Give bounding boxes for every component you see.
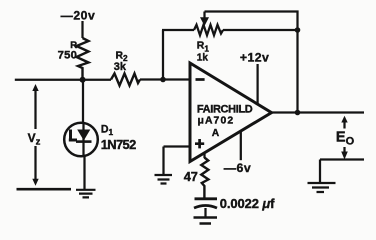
wire output ground reference horizontal (320, 158, 364, 160)
ground under zener (76, 190, 96, 198)
Vz measure arrow lower (34, 146, 36, 180)
node junction at R-750 / zener (80, 77, 86, 83)
node junction R1 right (295, 27, 301, 33)
wire output ground reference vertical (319, 160, 321, 184)
resistor 47 zigzag (201, 158, 208, 198)
wire +12v supply lead (256, 64, 258, 104)
svg-text:3k: 3k (114, 61, 127, 73)
svg-text:R1: R1 (197, 41, 210, 54)
wire bottom reference line (17, 188, 72, 191)
op-amp uA702 triangle (190, 63, 272, 162)
capacitor top plate (195, 197, 218, 200)
pot wiper arrow (203, 12, 205, 20)
wire main input rail left segment (15, 79, 111, 81)
svg-text:—6v: —6v (224, 161, 251, 175)
wire capacitor to ground (204, 208, 206, 217)
Eo measure arrow lower (343, 147, 345, 153)
ground at output reference (308, 183, 336, 192)
svg-text:μA702: μA702 (198, 116, 235, 127)
wire through zener (82, 123, 84, 156)
wire R1 left lead (162, 29, 194, 31)
wire -20v supply lead (81, 21, 83, 38)
node junction at R1 tap (160, 77, 166, 83)
svg-text:47: 47 (184, 169, 198, 184)
ground at non-inverting input (155, 175, 173, 184)
node output junction (295, 110, 301, 116)
wire output (272, 111, 365, 113)
svg-text:1N752: 1N752 (101, 137, 136, 152)
wire non-inverting ground link horizontal (164, 145, 190, 147)
wire -6v supply lead (240, 131, 242, 160)
capacitor bottom plate (194, 206, 217, 209)
resistor R (750 ohm) zigzag (77, 38, 89, 80)
wire zener branch vertical (82, 80, 84, 124)
zener diode D1 circle (64, 123, 98, 157)
svg-text:—20v: —20v (61, 9, 96, 23)
svg-text:FAIRCHILD: FAIRCHILD (197, 104, 253, 116)
wire R1 tap vertical riser (162, 30, 164, 80)
wire non-inverting ground link vertical (162, 147, 164, 176)
Vz measure arrow upper (34, 90, 36, 129)
resistor R2 (3k) zigzag (111, 74, 140, 86)
wire R1 right lead (223, 29, 298, 31)
zener cathode bar (76, 140, 92, 143)
Eo measure arrow upper (341, 116, 347, 123)
zener diode triangle (77, 130, 90, 141)
svg-text:A: A (212, 128, 220, 139)
svg-text:750: 750 (58, 50, 78, 62)
op-amp plus sign (195, 139, 204, 148)
svg-text:+12v: +12v (240, 51, 269, 65)
op-amp minus sign (196, 78, 205, 81)
wire pot wiper top (205, 12, 298, 31)
zener cathode L mark (69, 130, 77, 141)
wire main input rail right segment (140, 78, 190, 80)
ground under capacitor (194, 218, 218, 224)
wire zener to ground (83, 156, 85, 190)
resistor R1 (1k) zigzag (194, 25, 223, 35)
svg-text:0.0022 μf: 0.0022 μf (220, 196, 275, 211)
resistor 47 lead from op-amp (203, 154, 205, 159)
svg-text:1k: 1k (197, 52, 209, 63)
wire feedback vertical (296, 28, 298, 113)
